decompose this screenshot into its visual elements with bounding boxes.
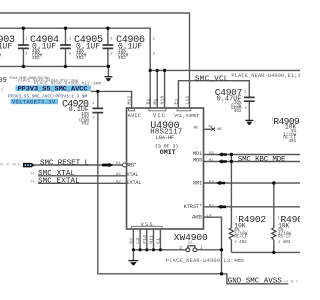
svg-text:M1: M1 — [152, 99, 158, 105]
svg-text:99: 99 — [0, 77, 7, 85]
svg-text:M5: M5 — [209, 125, 213, 129]
svg-text:E3: E3 — [209, 181, 214, 185]
wire VSS rail to jumper — [133, 249, 221, 251]
resistor R4903 leads — [273, 183, 275, 252]
svg-text:1: 1 — [244, 90, 247, 94]
pin bubble RES* — [123, 163, 127, 167]
wire SMC_EXTAL — [38, 182, 127, 184]
wire SMC_XTAL — [38, 175, 127, 177]
rotated pin numbers top — [127, 96, 191, 105]
svg-text:402: 402 — [76, 56, 84, 61]
net label SMC_RESET_L — [0, 159, 121, 167]
resistor R4902 zigzag — [229, 228, 233, 240]
chip U4900 internal labels — [127, 113, 203, 228]
highlight PP3V3_S5_SMC_AVCC — [11, 85, 92, 104]
net label SMC_XTAL — [31, 170, 122, 178]
capacitor C4903 plates — [18, 45, 29, 48]
capacitor C4904 leads — [65, 28, 67, 66]
svg-text:2: 2 — [1, 89, 3, 93]
pin number D3 — [209, 152, 214, 156]
svg-text:2: 2 — [110, 52, 113, 56]
svg-text:2: 2 — [69, 52, 72, 56]
svg-text:PP3V3_S5_SMC_AVCC: PP3V3_S5_SMC_AVCC — [18, 86, 88, 94]
wire SMC_VCL pin E1 — [178, 81, 249, 108]
capacitor C4920 leads and bottom wire to AVSS — [98, 91, 222, 273]
svg-text:N11: N11 — [149, 235, 155, 244]
pin number L4 — [207, 215, 212, 219]
svg-text:CERM: CERM — [0, 54, 1, 59]
svg-text:E1: E1 — [174, 99, 180, 105]
svg-text:44 41 4: 44 41 4 — [284, 279, 298, 283]
wire AVCC label to pin M12 — [91, 91, 132, 108]
pin number H3 — [209, 204, 214, 208]
svg-text:VOLTAGE=3.3V: VOLTAGE=3.3V — [12, 99, 55, 105]
svg-text:F14: F14 — [142, 235, 148, 244]
wire NMI — [204, 182, 301, 184]
pin group bracket VSS — [132, 226, 163, 228]
text capacitor C4920 — [62, 100, 95, 127]
ground caps rail — [104, 77, 112, 82]
text capacitor C4907 — [215, 87, 248, 114]
svg-text:2: 2 — [234, 241, 237, 245]
svg-text:B1: B1 — [145, 99, 151, 105]
svg-text:A3: A3 — [116, 173, 121, 177]
svg-text:1: 1 — [69, 37, 72, 41]
svg-text:SMC_EXTAL: SMC_EXTAL — [38, 178, 80, 186]
svg-text:1: 1 — [92, 102, 95, 106]
svg-text:2: 2 — [244, 107, 247, 111]
text capacitor C4903 — [0, 35, 28, 61]
svg-text:D3: D3 — [209, 152, 214, 156]
svg-text:D2: D2 — [129, 238, 135, 244]
svg-text:402: 402 — [118, 56, 126, 61]
wire AVSS pin to bottom — [204, 217, 222, 274]
svg-text:402: 402 — [234, 109, 242, 114]
svg-text:KTRST*: KTRST* — [184, 204, 203, 210]
net label SMC_KBC_MDE — [238, 156, 286, 164]
capacitor C4907 plates — [244, 97, 255, 101]
svg-text:GND_SMC_AVSS: GND_SMC_AVSS — [228, 278, 282, 286]
svg-text:A2: A2 — [116, 181, 121, 185]
svg-text:N10: N10 — [160, 96, 166, 105]
wire resistor bottom rail — [231, 251, 300, 253]
arrow MD1 into chip — [218, 152, 227, 156]
svg-text:NC: NC — [217, 128, 222, 132]
svg-text:L3: L3 — [135, 238, 141, 244]
wire NC stub — [204, 128, 212, 130]
svg-text:L11: L11 — [185, 96, 191, 105]
svg-text:2: 2 — [153, 52, 156, 56]
svg-text:XTAL: XTAL — [127, 172, 139, 178]
resistor R4902 leads — [230, 155, 232, 253]
text cut ref left edge — [0, 77, 7, 93]
arrow KTRST into chip — [217, 205, 226, 209]
arrow MD0 into chip — [218, 159, 227, 163]
svg-text:1: 1 — [200, 245, 203, 251]
svg-text:D1: D1 — [116, 162, 121, 166]
text PLACE note C4907 — [231, 73, 307, 79]
svg-text:SMC_KBC_MDE: SMC_KBC_MDE — [238, 156, 286, 164]
wire GND_SMC_AVSS jog — [222, 274, 289, 284]
text capacitor C4904 — [30, 35, 72, 61]
svg-text:1: 1 — [25, 37, 28, 41]
svg-text:402: 402 — [32, 56, 40, 61]
svg-text:402: 402 — [283, 240, 291, 245]
pin number B1 — [209, 159, 214, 163]
svg-text:NC: NC — [194, 127, 199, 131]
svg-text:61 47 46 6: 61 47 46 6 — [0, 162, 20, 166]
wire second rail cap tops — [0, 28, 150, 108]
no-connect X on NC pin — [211, 128, 215, 131]
wire VSS pins — [133, 229, 160, 260]
svg-text:L4: L4 — [207, 215, 212, 219]
svg-text:NMI: NMI — [193, 181, 202, 187]
text capacitor C4906 — [116, 35, 156, 61]
text resistor R4909 — [272, 116, 301, 144]
svg-text:1: 1 — [153, 37, 156, 41]
capacitor C4920 plates — [92, 108, 103, 112]
ground VSS rail — [128, 261, 138, 266]
ground C4907 — [245, 120, 253, 125]
node SMC_RESET_L off-page tag — [23, 163, 35, 168]
pin group bracket VCL,AVREF — [177, 109, 191, 111]
net label PP3V3_S5_SMC_AVCC — [8, 86, 88, 106]
svg-text:VCL,AVREF: VCL,AVREF — [174, 113, 200, 119]
svg-text:EXTAL: EXTAL — [127, 180, 142, 186]
svg-text:44: 44 — [30, 179, 34, 183]
arrow NMI into chip — [216, 181, 225, 185]
svg-text:RES*: RES* — [127, 163, 137, 169]
svg-text:M12: M12 — [127, 96, 133, 105]
svg-text:VCC: VCC — [153, 113, 165, 119]
svg-text:PLACE_NEAR-U4900,E1;3mm: PLACE_NEAR-U4900,E1;3mm — [231, 73, 300, 79]
capacitor C4905 plates — [103, 45, 114, 48]
svg-text:B1: B1 — [209, 159, 214, 163]
wire MD1 — [204, 154, 301, 156]
svg-text:402: 402 — [81, 122, 89, 127]
pin group bracket AVCC — [129, 109, 135, 111]
svg-text:1: 1 — [110, 37, 113, 41]
svg-text:2: 2 — [92, 116, 95, 120]
svg-text:2: 2 — [278, 241, 281, 245]
IC U4900 SMC body — [127, 108, 204, 229]
svg-text:SMC_VCL: SMC_VCL — [195, 75, 229, 83]
svg-text:LGA-HF: LGA-HF — [156, 135, 175, 141]
svg-text:1A: 1A — [188, 242, 194, 246]
svg-text:402: 402 — [288, 139, 296, 144]
svg-text:44: 44 — [31, 172, 35, 176]
capacitor C4903 leads — [22, 28, 24, 66]
capacitor C4907 bottom lead — [248, 101, 250, 120]
svg-text:2: 2 — [25, 52, 28, 56]
resistor R4903 zigzag — [272, 228, 276, 240]
capacitor C4904 plates — [60, 45, 71, 48]
jumper XW4900 — [186, 246, 197, 252]
svg-text:MD0: MD0 — [193, 157, 202, 163]
net label GND_SMC_AVSS — [228, 278, 298, 286]
pin number E3 — [209, 181, 214, 185]
svg-text:AVSS: AVSS — [192, 214, 202, 220]
wire KTRST — [204, 206, 301, 208]
text resistor R4902 — [234, 214, 266, 245]
svg-text:RC-LF: RC-LF — [278, 235, 291, 240]
wire MD0 SMC_KBC_MDE — [204, 161, 301, 163]
text capacitor C4905 — [74, 35, 113, 61]
net label SMC_VCL — [195, 75, 229, 83]
svg-text:0.1UF: 0.1UF — [0, 43, 12, 52]
svg-text:402: 402 — [239, 240, 247, 245]
svg-text:C1: C1 — [156, 238, 162, 244]
wire SMC_RESET_L — [35, 164, 123, 166]
svg-text:PLACE_NEAR-U4900,L3:4mm: PLACE_NEAR-U4900,L3:4mm — [166, 258, 244, 264]
pin number M5 and NC — [209, 125, 223, 132]
svg-text:RC-LF: RC-LF — [234, 235, 247, 240]
text resistor R4903 — [277, 214, 308, 245]
svg-text:2: 2 — [179, 245, 182, 251]
svg-text:SMC_RESET_L: SMC_RESET_L — [40, 159, 89, 167]
wire VCC pins tie — [150, 70, 300, 108]
text PLACE note XW4900 — [166, 258, 244, 264]
wire caps bottom rail to ground — [0, 66, 108, 76]
capacitor C4905 leads — [107, 28, 109, 66]
pin group bracket VCC — [149, 109, 166, 111]
rotated pin numbers bottom VSS — [129, 235, 162, 244]
wire top rail PP3V3_S5_SMC_AVCC to AVREF — [0, 13, 190, 108]
net label SMC_EXTAL — [30, 178, 121, 186]
svg-text:AVCC: AVCC — [128, 113, 141, 119]
svg-text:MD1: MD1 — [193, 151, 202, 157]
svg-text:OMIT: OMIT — [160, 149, 176, 156]
arrow SMC_RESET_L into chip — [102, 163, 113, 168]
svg-text:H3: H3 — [209, 204, 214, 208]
text jumper XW4900 — [174, 232, 208, 251]
svg-text:VSS: VSS — [141, 222, 153, 228]
